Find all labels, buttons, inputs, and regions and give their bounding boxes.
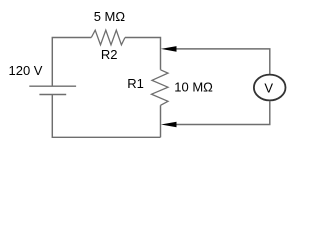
wire from R2 to node A (top of R1 branch) <box>125 38 161 70</box>
wire from battery positive up and right to R2 <box>52 38 91 87</box>
voltmeter top lead wire <box>177 49 270 74</box>
voltmeter V body <box>254 75 286 101</box>
voltmeter bottom lead wire <box>177 101 270 125</box>
battery 120 V negative plate <box>39 94 66 96</box>
svg-text:R1: R1 <box>127 76 144 91</box>
svg-text:120 V: 120 V <box>9 63 43 78</box>
svg-text:V: V <box>264 80 273 95</box>
wire bottom return to battery negative <box>52 95 160 138</box>
resistor R2 <box>91 30 125 45</box>
arrowhead at node B <box>161 122 177 128</box>
svg-text:R2: R2 <box>101 47 118 62</box>
svg-text:5 MΩ: 5 MΩ <box>94 9 126 24</box>
wire from R1 bottom to node B <box>160 105 162 137</box>
resistor R1 <box>152 70 169 106</box>
arrowhead at node A <box>161 46 177 52</box>
svg-text:10 MΩ: 10 MΩ <box>174 80 213 95</box>
battery 120 V positive plate <box>29 85 76 87</box>
